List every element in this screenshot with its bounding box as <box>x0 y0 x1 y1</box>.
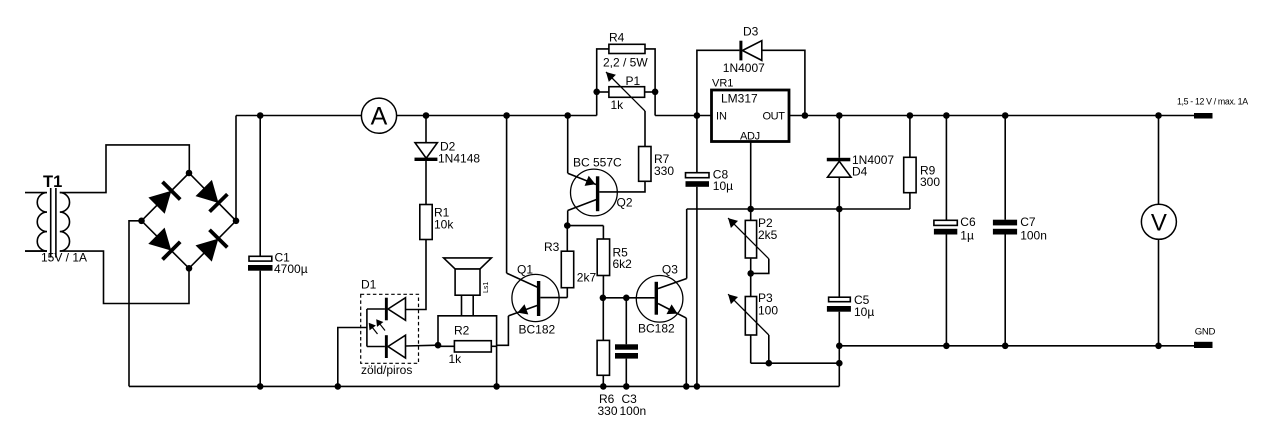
svg-text:D1: D1 <box>361 278 377 292</box>
node Q3 emitter ground <box>683 383 690 390</box>
transistor Q2 base bar <box>596 176 599 211</box>
svg-text:R2: R2 <box>454 324 470 338</box>
node R5 bottom <box>600 295 607 302</box>
svg-text:P1: P1 <box>626 74 641 88</box>
wire top rail left of ammeter <box>236 115 361 117</box>
potentiometer P2 <box>745 220 756 258</box>
wire Q2 collector to R5 <box>567 225 603 227</box>
svg-text:D3: D3 <box>743 25 759 39</box>
svg-text:300: 300 <box>920 175 940 189</box>
wire Q1 emitter to bus <box>497 316 509 345</box>
bridge diode left-top <box>148 191 171 214</box>
speaker Ls1 <box>444 258 492 269</box>
wire top rail ammeter to R4/P1 <box>397 115 597 117</box>
capacitor C5 <box>829 297 851 302</box>
svg-text:V: V <box>1151 210 1167 237</box>
wire rail to R4/P1 left <box>597 49 609 116</box>
svg-text:ADJ: ADJ <box>740 131 760 143</box>
svg-text:1,5 - 12 V / max. 1A: 1,5 - 12 V / max. 1A <box>1177 97 1248 107</box>
transistor Q3 emitter <box>658 304 686 319</box>
transistor Q2 emitter <box>567 116 569 174</box>
potentiometer P2 wiper <box>728 218 769 259</box>
svg-text:2k7: 2k7 <box>577 271 597 285</box>
wire secondary top to bridge top <box>60 145 190 193</box>
svg-text:10k: 10k <box>434 218 454 232</box>
svg-text:BC 557C: BC 557C <box>573 156 622 170</box>
svg-text:R3: R3 <box>544 240 560 254</box>
svg-text:1µ: 1µ <box>960 229 974 243</box>
svg-text:10µ: 10µ <box>854 305 874 319</box>
svg-text:100n: 100n <box>1020 229 1047 243</box>
diode D2 <box>425 116 427 143</box>
wire P3 bottom rail <box>751 362 840 364</box>
potentiometer P1 <box>597 91 609 93</box>
svg-text:Ls1: Ls1 <box>483 282 490 293</box>
wire ADJ pin down <box>750 142 752 221</box>
node P1 right <box>652 89 659 96</box>
transistor Q1 base bar <box>537 281 540 316</box>
transistor Q3 base bar <box>655 282 658 315</box>
svg-text:15V / 1A: 15V / 1A <box>41 251 87 265</box>
svg-text:IN: IN <box>716 111 727 123</box>
svg-text:C6: C6 <box>960 215 976 229</box>
transistor Q2 collector <box>568 200 597 211</box>
node D4 top <box>836 112 843 119</box>
node voltmeter bottom <box>1155 343 1162 350</box>
output terminal positive <box>1194 113 1213 119</box>
resistor R7 <box>644 111 646 147</box>
svg-text:1k: 1k <box>449 352 463 366</box>
regulator U1 LM317 box <box>712 90 790 142</box>
wire base bus <box>603 297 655 299</box>
transistor Q3 circle <box>636 276 683 323</box>
LED D1 dashed box <box>361 294 419 363</box>
diode D3 <box>697 50 740 115</box>
svg-text:R4: R4 <box>609 31 625 45</box>
wire bottom ground rail <box>129 385 839 387</box>
capacitor C8 <box>696 116 698 173</box>
node C8 top <box>694 112 701 119</box>
svg-text:1N4148: 1N4148 <box>438 152 480 166</box>
node bridge bottom <box>186 265 193 272</box>
transistor Q1 emitter <box>508 305 538 316</box>
node bridge top <box>186 170 193 177</box>
svg-text:330: 330 <box>654 164 674 178</box>
node C8 ground <box>694 383 701 390</box>
node D1 ground <box>335 383 342 390</box>
node C1 bottom <box>257 383 264 390</box>
node C7 ground <box>1002 343 1009 350</box>
svg-text:Q1: Q1 <box>517 263 533 277</box>
resistor R9 <box>909 116 911 158</box>
bridge diode bottom-right <box>196 239 219 262</box>
svg-text:C7: C7 <box>1020 215 1036 229</box>
bridge diode left-bottom <box>148 228 171 251</box>
node D2 top <box>423 112 430 119</box>
potentiometer P3 <box>750 273 752 296</box>
node P1 left <box>593 89 600 96</box>
svg-text:6k2: 6k2 <box>613 257 633 271</box>
resistor R3 <box>566 226 568 252</box>
svg-text:VR1: VR1 <box>712 78 733 90</box>
svg-text:10µ: 10µ <box>713 179 733 193</box>
wire top rail LM317 OUT to output <box>789 115 1194 117</box>
svg-text:OUT: OUT <box>763 111 786 123</box>
wire ADJ rail <box>687 208 910 210</box>
diode D4 <box>838 116 840 158</box>
svg-text:100: 100 <box>758 304 778 318</box>
node ADJ rail <box>747 206 754 213</box>
svg-text:zöld/piros: zöld/piros <box>361 363 412 377</box>
resistor R6 <box>602 298 604 341</box>
svg-text:T1: T1 <box>43 173 62 191</box>
node P3 wiper <box>766 360 773 367</box>
resistor R5 <box>597 239 609 276</box>
node C7 top <box>1002 112 1009 119</box>
node bridge left <box>138 218 145 225</box>
transistor Q1 collector <box>507 273 538 287</box>
svg-text:Q2: Q2 <box>617 196 633 210</box>
wire bridge right up to positive rail <box>235 116 237 221</box>
transformer T1 secondary winding <box>60 193 70 252</box>
potentiometer P3 wiper <box>728 294 769 335</box>
node R2 left <box>435 342 442 349</box>
wire bridge left to ground rail <box>129 221 142 387</box>
bridge diamond wires <box>142 173 237 268</box>
svg-text:BC182: BC182 <box>519 323 556 337</box>
node ground riser P3 <box>836 360 843 367</box>
voltmeter V1 <box>1158 116 1160 205</box>
resistor R1 <box>420 205 432 240</box>
transistor Q1 circle <box>512 274 559 321</box>
svg-text:100n: 100n <box>620 404 647 418</box>
node C3 top <box>623 295 630 302</box>
wire right ground rail <box>839 345 1194 347</box>
node P2 bottom <box>747 270 754 277</box>
svg-text:2k5: 2k5 <box>758 228 778 242</box>
node R2 ground <box>493 383 500 390</box>
potentiometer P1 wiper <box>606 72 645 111</box>
capacitor C1 <box>259 116 261 257</box>
node Q2 collector <box>564 222 571 229</box>
node Q2 emitter rail <box>564 112 571 119</box>
output terminal GND <box>1194 342 1213 348</box>
LED D1 upper diode <box>385 298 388 321</box>
node C1 top <box>257 112 264 119</box>
transistor Q3 collector <box>658 279 687 289</box>
svg-text:1N4007: 1N4007 <box>723 61 765 75</box>
wire R1 to D1 upper LED <box>406 240 427 310</box>
LED D1 lower diode <box>385 335 388 358</box>
svg-text:A: A <box>371 103 388 131</box>
bridge diode top-right <box>196 180 219 203</box>
svg-text:Q3: Q3 <box>662 263 678 277</box>
svg-text:4700µ: 4700µ <box>274 262 308 276</box>
wire D1 cathodes junction <box>366 309 368 347</box>
node C6 top <box>943 112 950 119</box>
wire secondary bottom to bridge bottom <box>60 251 189 303</box>
transistor Q1 base wire <box>540 297 567 299</box>
transistor Q2 base wire <box>599 181 645 192</box>
node C5 ground <box>836 343 843 350</box>
wire top rail R4/P1 to LM317 IN <box>655 115 711 117</box>
resistor R4 <box>609 44 645 53</box>
svg-text:BC182: BC182 <box>638 322 675 336</box>
ammeter A1 <box>361 98 396 133</box>
wire D1 to ground rail <box>338 328 367 387</box>
transformer T1 primary winding <box>25 193 47 252</box>
transformer T1 core <box>50 188 52 258</box>
wire ground riser <box>838 363 840 386</box>
node D4 ADJ <box>836 206 843 213</box>
capacitor C3 <box>625 298 627 345</box>
wire primary bottom stub <box>25 250 47 252</box>
node R6 ground <box>600 383 607 390</box>
svg-text:GND: GND <box>1195 327 1216 338</box>
transistor Q2 circle <box>571 169 618 216</box>
svg-text:D4: D4 <box>852 165 868 179</box>
resistor R2 <box>438 345 454 347</box>
node C6 ground <box>943 343 950 350</box>
node voltmeter top <box>1155 112 1162 119</box>
svg-text:1k: 1k <box>611 98 625 112</box>
node R9 top <box>907 112 914 119</box>
node Q1 collector rail <box>503 112 510 119</box>
node bridge right <box>233 218 240 225</box>
node D3 out <box>802 112 809 119</box>
svg-text:330: 330 <box>598 404 618 418</box>
LED D1 light arrows <box>370 325 378 335</box>
svg-text:2,2 / 5W: 2,2 / 5W <box>603 56 648 70</box>
capacitor C7 <box>1004 116 1006 220</box>
svg-text:LM317: LM317 <box>721 92 758 106</box>
node C3 ground <box>623 383 630 390</box>
capacitor C6 <box>945 116 947 221</box>
wire emitter bus <box>438 316 497 387</box>
wire R4/P1 right to rail <box>645 49 655 116</box>
